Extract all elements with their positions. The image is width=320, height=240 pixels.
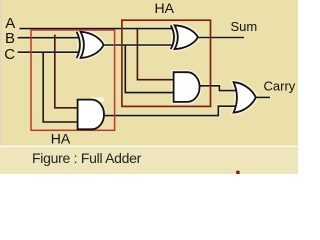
xor gate U3 (A xor S1) [171,25,198,49]
xor gate U1 (B xor C) [77,32,104,58]
and gate U4 (A and S1) [174,72,200,102]
wire C [18,51,80,53]
white compression halos around gates [18,25,270,115]
wire C tap to AND1 lower input [43,52,78,122]
or gate U5 (Carry) [234,82,256,112]
HA1 red box [31,30,115,130]
wire B tap to AND1 upper input [55,35,79,108]
svg-text:HA: HA [51,131,71,147]
wire AND1 output to OR lower input [104,106,238,115]
svg-text:Carry: Carry [264,79,296,94]
left edge border [0,0,1,146]
wire A [20,28,173,30]
wire AND2 output to OR upper input [200,86,238,91]
wire XOR1 output to XOR2 [104,44,172,46]
red cursor mark [236,171,239,174]
wire sum1 tap to AND2 lower input [125,45,174,93]
svg-text:C: C [4,46,15,63]
separator line [0,146,298,147]
wire B [18,37,80,39]
HA2 red box [122,20,211,106]
wire Carry output [256,96,271,98]
wire Sum output [198,37,244,39]
wire A tap to AND2 upper input [137,29,174,80]
svg-text:HA: HA [155,0,175,16]
caption background strip [0,147,298,174]
svg-text:B: B [5,30,15,47]
and gate U2 (B and C) [78,100,104,130]
svg-text:Figure : Full Adder: Figure : Full Adder [32,150,142,166]
svg-text:Sum: Sum [231,19,258,34]
